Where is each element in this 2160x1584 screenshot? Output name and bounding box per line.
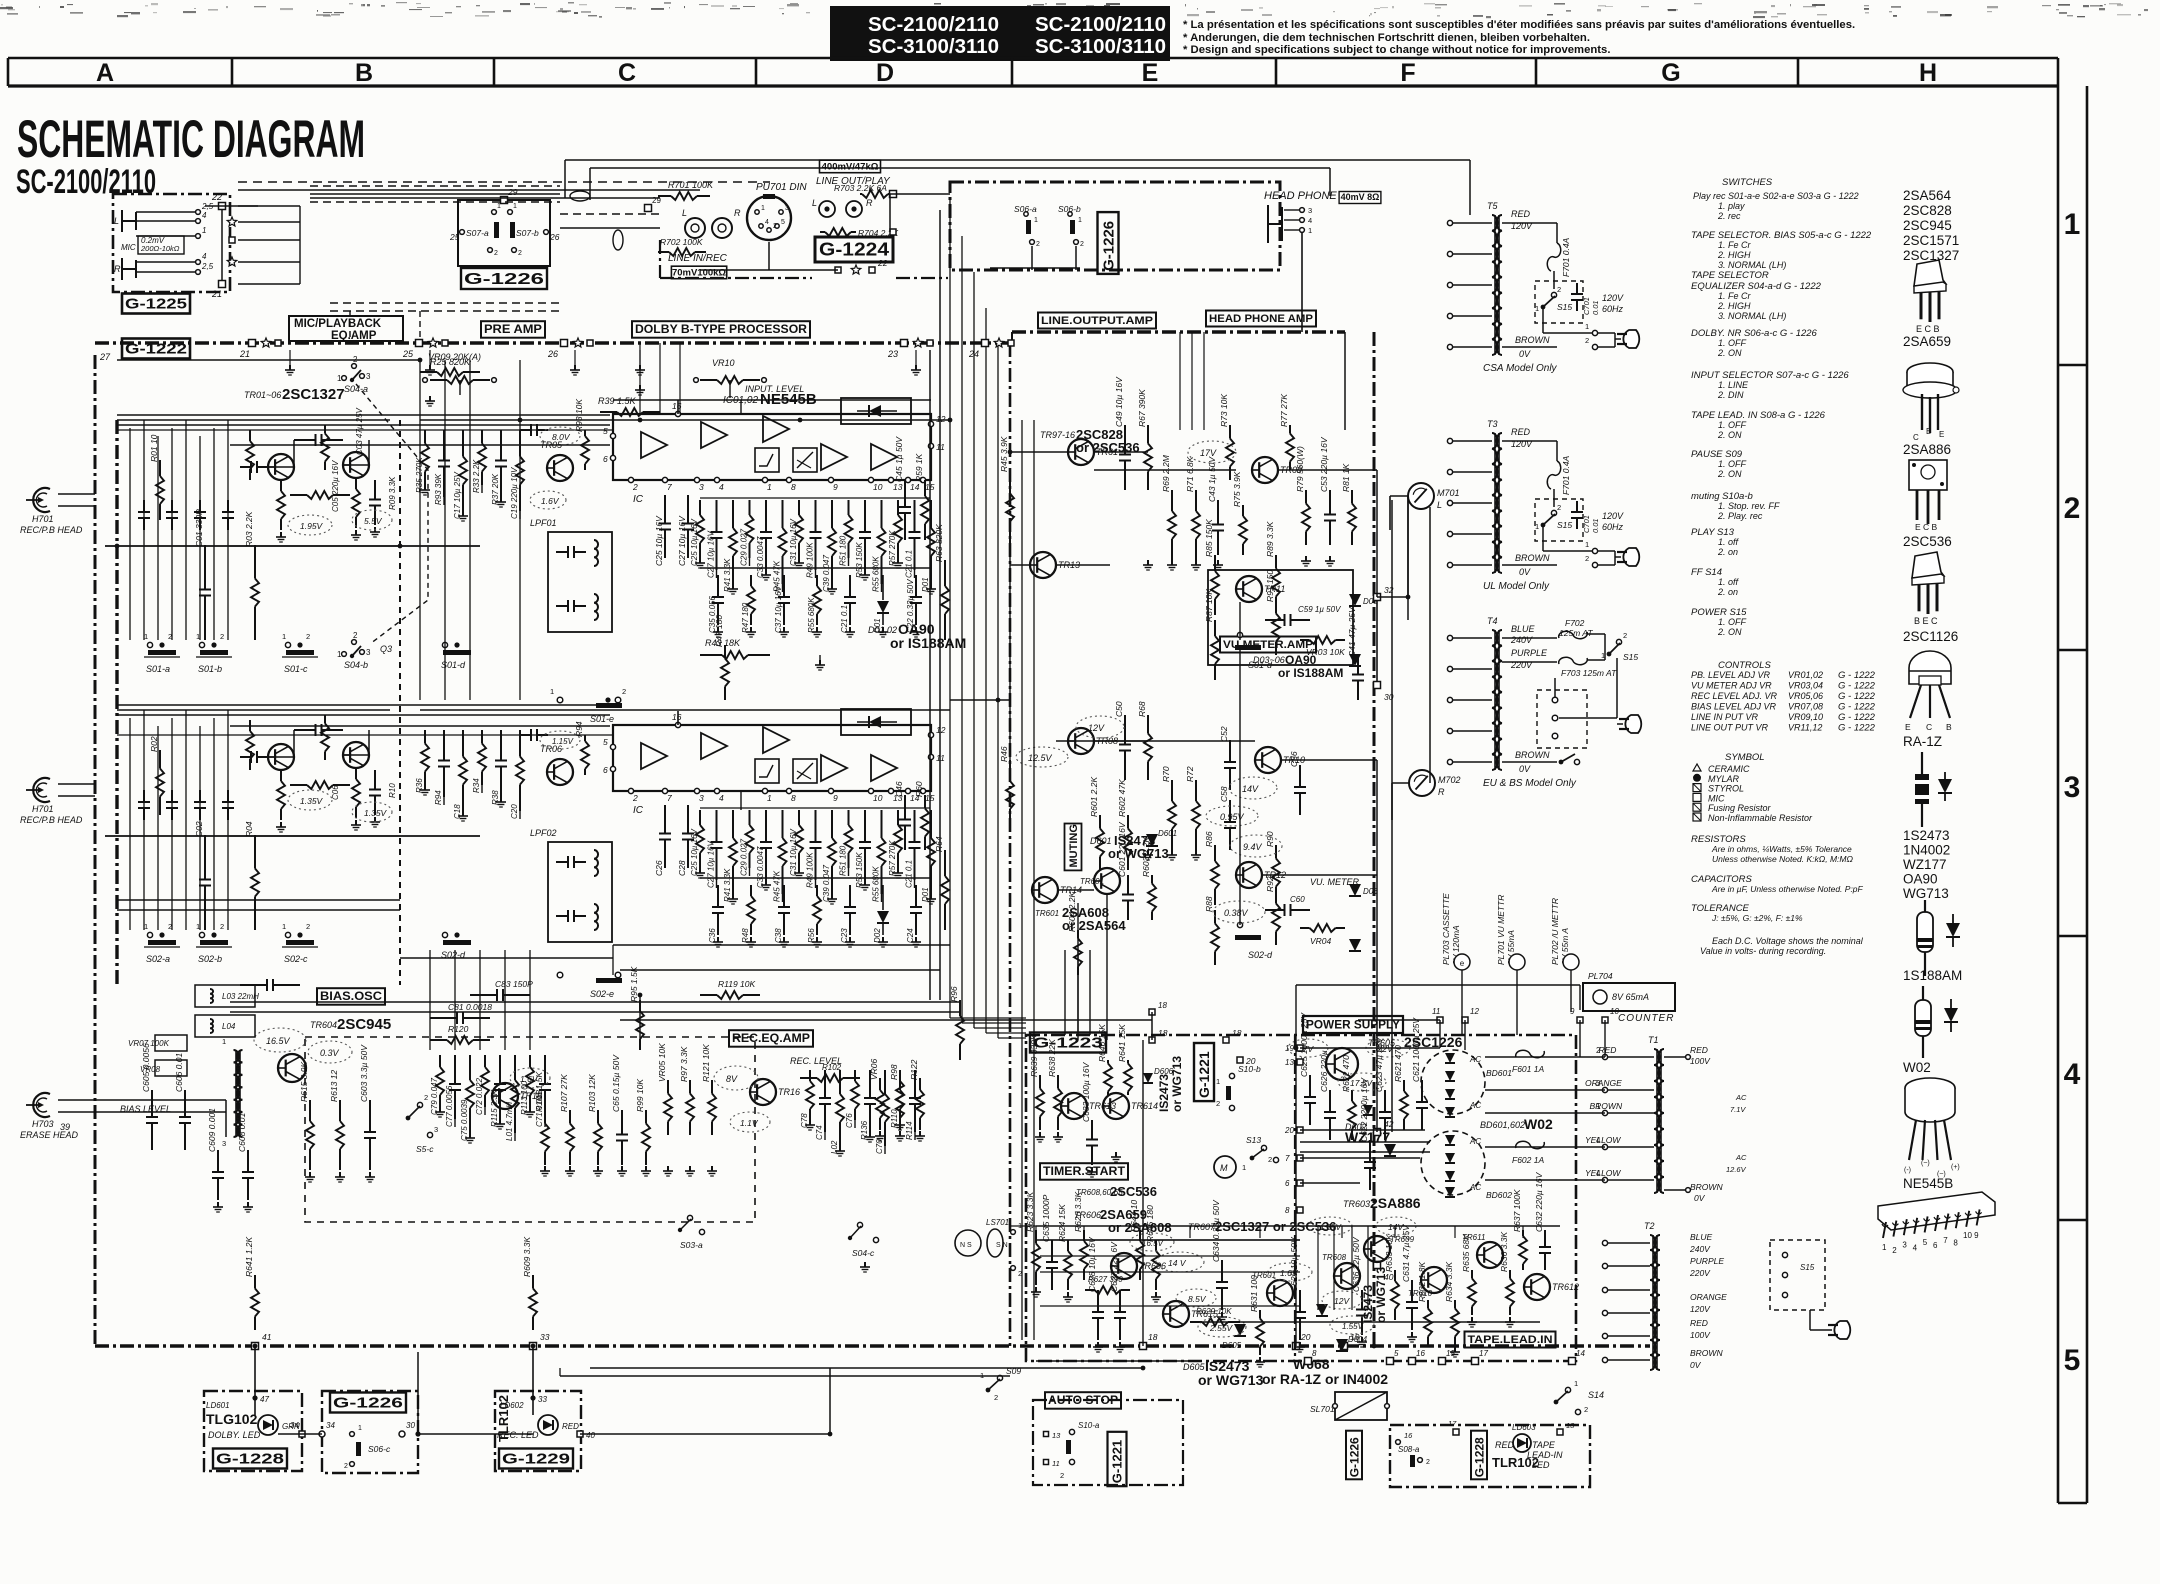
svg-text:2: 2 xyxy=(994,1393,998,1402)
svg-text:G - 1222: G - 1222 xyxy=(1838,670,1876,681)
svg-text:MUTING: MUTING xyxy=(1068,824,1080,867)
svg-text:R644 10: R644 10 xyxy=(1129,1200,1139,1232)
terminal labels on main bus xyxy=(416,340,423,347)
svg-text:R621 470: R621 470 xyxy=(1393,1045,1403,1082)
svg-text:RED: RED xyxy=(1690,1318,1708,1328)
svg-text:5: 5 xyxy=(781,219,785,226)
svg-text:B: B xyxy=(1926,427,1931,436)
resistor R45 xyxy=(782,810,784,838)
lpf coil 1 xyxy=(556,551,568,553)
cloud 17V xyxy=(1288,1039,1328,1057)
svg-text:H701: H701 xyxy=(32,514,54,524)
svg-text:4: 4 xyxy=(202,211,207,220)
right side caps IC02 xyxy=(904,795,906,820)
amp triangle IC02-1 xyxy=(641,743,667,769)
wire forest rail 2 xyxy=(700,807,930,809)
svg-text:S15: S15 xyxy=(1557,302,1572,312)
svg-text:4: 4 xyxy=(1596,1136,1601,1145)
wire forest rail 1 xyxy=(700,497,930,499)
label G-1229 xyxy=(499,1449,573,1469)
svg-text:or WG713: or WG713 xyxy=(1198,1372,1264,1388)
svg-text:C29 0.027: C29 0.027 xyxy=(740,839,749,876)
svg-text:22: 22 xyxy=(211,192,222,202)
svg-text:1.35V: 1.35V xyxy=(1320,1223,1342,1232)
svg-text:DOLBY. LED: DOLBY. LED xyxy=(208,1430,261,1440)
line out resistors xyxy=(1009,470,1011,494)
svg-text:1: 1 xyxy=(1242,1163,1246,1172)
terminal 34 pair xyxy=(299,1431,305,1437)
rec eq dashed outline xyxy=(305,1037,755,1222)
svg-text:L03 22mH: L03 22mH xyxy=(222,992,259,1001)
svg-text:LD601: LD601 xyxy=(206,1401,230,1410)
cap C81 0.0018 xyxy=(430,1017,457,1019)
svg-text:E C B: E C B xyxy=(1916,324,1940,334)
svg-text:T2: T2 xyxy=(1644,1221,1655,1231)
capacitor C33 xyxy=(765,810,767,842)
svg-text:17V: 17V xyxy=(1200,448,1217,458)
switch S01-d right xyxy=(1237,632,1242,637)
bottom bus terminals xyxy=(1140,1343,1147,1350)
svg-text:125m AT: 125m AT xyxy=(1559,628,1593,638)
vu diodes xyxy=(1349,594,1361,606)
wire horizontal preamp row2 xyxy=(105,835,480,837)
svg-text:1: 1 xyxy=(202,226,206,235)
label G-1222 xyxy=(122,339,190,359)
svg-text:1: 1 xyxy=(1535,304,1539,313)
svg-text:S02-a: S02-a xyxy=(146,954,170,964)
svg-text:R609 3.3K: R609 3.3K xyxy=(522,1237,532,1277)
T2 taps left xyxy=(1608,1242,1650,1244)
resistor C25 xyxy=(699,810,701,825)
svg-text:3: 3 xyxy=(1596,1079,1601,1088)
svg-text:2. on: 2. on xyxy=(1717,547,1738,557)
line out grounds xyxy=(1147,560,1149,565)
svg-text:(+): (+) xyxy=(1951,1164,1960,1171)
svg-text:14V: 14V xyxy=(1388,1222,1404,1232)
svg-text:100V: 100V xyxy=(1690,1056,1711,1066)
svg-text:T4: T4 xyxy=(1487,616,1498,626)
din connector PU701 xyxy=(747,196,791,240)
wire eu plug xyxy=(1616,658,1618,718)
svg-text:17: 17 xyxy=(1479,1349,1488,1358)
svg-text:LD602: LD602 xyxy=(500,1401,524,1410)
svg-text:C17 10µ 25V: C17 10µ 25V xyxy=(453,471,462,519)
wire line out amp links xyxy=(1010,451,1068,453)
svg-text:200Ω-10kΩ: 200Ω-10kΩ xyxy=(140,244,180,253)
svg-text:B: B xyxy=(355,59,373,87)
svg-text:10: 10 xyxy=(873,793,883,803)
cap C603 xyxy=(369,1100,371,1132)
svg-text:R613 12: R613 12 xyxy=(329,1070,339,1102)
svg-text:R89 3.3K: R89 3.3K xyxy=(1265,521,1275,557)
right side caps IC01 xyxy=(904,480,906,507)
transistor TR10 xyxy=(1255,747,1281,773)
svg-text:2. rec: 2. rec xyxy=(1717,211,1741,221)
wire power rows xyxy=(1300,1047,1440,1049)
svg-text:C46: C46 xyxy=(894,781,904,797)
svg-text:C605 0.0056: C605 0.0056 xyxy=(141,1043,151,1092)
svg-text:1. OFF: 1. OFF xyxy=(1718,420,1747,430)
svg-text:10: 10 xyxy=(873,482,883,492)
svg-text:2. HIGH: 2. HIGH xyxy=(1717,250,1751,260)
terminal 22 din xyxy=(869,267,875,273)
pins left IC02 xyxy=(610,744,615,749)
svg-text:3: 3 xyxy=(222,1139,226,1148)
svg-text:S02-c: S02-c xyxy=(284,954,308,964)
svg-text:R37 20K: R37 20K xyxy=(491,473,500,505)
svg-text:F702: F702 xyxy=(1565,618,1585,628)
svg-text:G-1222: G-1222 xyxy=(125,340,187,357)
svg-text:34: 34 xyxy=(290,1421,299,1430)
svg-text:R63 820K: R63 820K xyxy=(934,524,944,562)
junction terminal 18 block xyxy=(1149,1009,1155,1015)
svg-text:H: H xyxy=(1919,59,1937,87)
wire dolby ic links xyxy=(740,400,742,414)
svg-text:2SC1327: 2SC1327 xyxy=(282,386,345,403)
svg-text:G: G xyxy=(1661,59,1680,87)
svg-text:SC-2100/2110: SC-2100/2110 xyxy=(868,13,999,36)
bottom lamp G-1226 area xyxy=(1396,1440,1401,1445)
capacitor R53 xyxy=(864,810,866,842)
svg-text:R98: R98 xyxy=(889,1064,899,1080)
svg-text:R75 3.9K: R75 3.9K xyxy=(1232,471,1242,507)
transformer T3 xyxy=(1492,433,1498,573)
headphone grounds xyxy=(1217,560,1219,565)
svg-text:REC/P.B HEAD: REC/P.B HEAD xyxy=(20,525,83,535)
svg-text:0.01: 0.01 xyxy=(1591,518,1600,533)
capacitor C27 xyxy=(716,810,718,842)
pot VR09 20K xyxy=(430,379,447,381)
svg-text:S5-c: S5-c xyxy=(416,1144,434,1154)
headphone amp resistors xyxy=(1229,425,1231,439)
svg-text:2: 2 xyxy=(622,687,626,696)
capacitor R94 xyxy=(443,730,445,761)
svg-text:NE545B: NE545B xyxy=(1903,1176,1953,1191)
svg-text:29: 29 xyxy=(507,187,518,197)
svg-text:E: E xyxy=(1905,722,1911,732)
transistor TR09 xyxy=(1252,457,1278,483)
capacitor C74 xyxy=(824,1070,826,1098)
svg-text:R53 150K: R53 150K xyxy=(855,542,864,578)
svg-text:MYLAR: MYLAR xyxy=(1708,774,1740,784)
G-1224 board outline xyxy=(660,277,812,279)
wire dolby vertical stubs xyxy=(639,343,641,414)
package NE545B DIP drawing xyxy=(1878,1192,1995,1230)
op-amp IC block IC02 xyxy=(613,725,931,791)
svg-text:TR604: TR604 xyxy=(310,1020,337,1030)
vu2 resistors xyxy=(1214,845,1216,861)
svg-text:BD602: BD602 xyxy=(1486,1190,1512,1200)
svg-text:18: 18 xyxy=(1148,1332,1158,1342)
svg-text:S15: S15 xyxy=(1557,520,1572,530)
ground cluster xyxy=(280,532,282,537)
svg-text:MIC: MIC xyxy=(1708,793,1725,803)
svg-text:G-1229: G-1229 xyxy=(502,1450,570,1467)
row rail right xyxy=(2057,86,2060,1503)
svg-text:R51 180: R51 180 xyxy=(839,535,848,566)
vu meter amp resistors xyxy=(1214,555,1216,571)
amp triangle IC02-5 xyxy=(871,755,897,781)
wire meter right rail xyxy=(1407,496,1409,620)
svg-text:TR603: TR603 xyxy=(1343,1199,1370,1209)
resistor R55 xyxy=(881,810,883,838)
svg-text:2: 2 xyxy=(1585,554,1589,563)
terminal 30 xyxy=(399,1431,405,1437)
svg-text:1. OFF: 1. OFF xyxy=(1718,459,1747,469)
terminal 41 47 xyxy=(252,1395,257,1400)
svg-text:1: 1 xyxy=(2064,208,2081,241)
svg-text:STYROL: STYROL xyxy=(1708,784,1744,794)
resistor D01 xyxy=(930,810,932,838)
svg-text:6: 6 xyxy=(1285,1179,1290,1188)
svg-text:R56: R56 xyxy=(807,928,816,943)
svg-text:DOLBY B-TYPE PROCESSOR: DOLBY B-TYPE PROCESSOR xyxy=(635,324,808,336)
svg-text:MIC/PLAYBACK: MIC/PLAYBACK xyxy=(294,318,382,330)
svg-text:1. off: 1. off xyxy=(1718,537,1740,547)
pins IC01 xyxy=(628,477,633,482)
svg-text:RED: RED xyxy=(1511,209,1531,219)
svg-text:C72 0.022: C72 0.022 xyxy=(475,1078,484,1115)
svg-text:1: 1 xyxy=(1585,540,1589,549)
svg-text:8.0V: 8.0V xyxy=(552,432,571,442)
svg-text:1. Stop. rev. FF: 1. Stop. rev. FF xyxy=(1718,501,1780,511)
svg-text:C83 150P: C83 150P xyxy=(495,979,533,989)
svg-text:R04: R04 xyxy=(244,821,254,837)
wire left lower horizontals xyxy=(117,899,400,901)
transformer T2 xyxy=(1650,1235,1656,1370)
svg-text:PL701 VU METTR: PL701 VU METTR xyxy=(1496,895,1506,965)
svg-text:LINE.OUTPUT.AMP: LINE.OUTPUT.AMP xyxy=(1041,315,1153,327)
svg-text:C27 10µ 16V: C27 10µ 16V xyxy=(707,840,716,888)
label G-1226 vertical xyxy=(1098,212,1119,274)
svg-text:PL703 CASSETTE: PL703 CASSETTE xyxy=(1441,893,1451,965)
svg-text:1: 1 xyxy=(767,793,772,803)
svg-text:R51 180: R51 180 xyxy=(839,845,848,876)
wire bundles from mic to line xyxy=(310,185,560,187)
grounds under bus xyxy=(289,350,291,365)
svg-text:14: 14 xyxy=(910,482,920,492)
meter terminals 42 40 xyxy=(1374,1129,1381,1136)
svg-text:7: 7 xyxy=(667,793,672,803)
label POWER SUPPLY xyxy=(1303,1016,1403,1033)
svg-text:3. NORMAL (LH): 3. NORMAL (LH) xyxy=(1718,260,1786,270)
preamp mid res R93 xyxy=(584,430,586,436)
svg-text:1. Fe Cr: 1. Fe Cr xyxy=(1718,240,1752,250)
wire to S02-e xyxy=(612,945,614,975)
svg-text:BROWN: BROWN xyxy=(1515,750,1550,760)
svg-text:C74: C74 xyxy=(815,1125,824,1140)
switch S02-d mid xyxy=(442,932,447,937)
svg-text:39: 39 xyxy=(60,1122,70,1132)
svg-text:D02: D02 xyxy=(873,928,882,943)
wire T4 RED tap xyxy=(1502,637,1557,639)
svg-text:R73 10K: R73 10K xyxy=(1219,394,1229,427)
ground cluster xyxy=(280,822,282,827)
svg-text:4: 4 xyxy=(719,793,724,803)
svg-text:R103 12K: R103 12K xyxy=(587,1074,597,1112)
resistor C29 xyxy=(749,810,751,825)
svg-text:1. OFF: 1. OFF xyxy=(1718,617,1747,627)
rec eq pot VR05 xyxy=(667,1080,669,1094)
svg-text:R64: R64 xyxy=(934,836,944,852)
svg-text:AC: AC xyxy=(1469,1137,1481,1146)
svg-text:2,5: 2,5 xyxy=(201,262,214,271)
svg-text:ORANGE: ORANGE xyxy=(1690,1292,1727,1302)
svg-text:L: L xyxy=(114,216,119,226)
svg-text:TR601: TR601 xyxy=(1035,909,1059,918)
capacitor bypass xyxy=(374,480,376,500)
resistor R702 100K xyxy=(658,251,669,253)
switch S01-e xyxy=(557,697,563,703)
label G-1221 vertical bottom xyxy=(1108,1432,1127,1486)
svg-text:D605: D605 xyxy=(1222,1341,1242,1350)
svg-text:C621 1000µ 25V: C621 1000µ 25V xyxy=(1411,1017,1421,1082)
pot VR10 xyxy=(700,379,717,381)
svg-text:15: 15 xyxy=(1446,1349,1455,1358)
wire right bundle drop to power xyxy=(949,1000,951,1018)
svg-text:240V: 240V xyxy=(1510,635,1533,645)
pins right IC02 xyxy=(928,732,933,737)
column ruler xyxy=(8,57,2058,60)
G-1226 switch box outline xyxy=(458,200,550,266)
wire bottom long runs xyxy=(95,1367,1010,1369)
label G-1228 vertical bottom2 xyxy=(1471,1431,1487,1480)
svg-text:C606 0.01: C606 0.01 xyxy=(174,1053,184,1092)
timer resistors xyxy=(1039,1075,1041,1089)
svg-text:L: L xyxy=(682,208,687,218)
svg-text:47: 47 xyxy=(260,1395,269,1404)
svg-text:C628 10µ 16V: C628 10µ 16V xyxy=(1087,1236,1097,1292)
svg-text:120V: 120V xyxy=(1511,221,1533,231)
meter M702 xyxy=(1409,770,1435,796)
svg-text:M: M xyxy=(1220,1163,1228,1173)
capacitor bypass xyxy=(374,770,376,790)
svg-text:C701: C701 xyxy=(1582,515,1591,533)
title block black box xyxy=(830,6,1170,61)
speaker LS701 xyxy=(955,1230,981,1256)
svg-text:G - 1222: G - 1222 xyxy=(1838,712,1876,723)
svg-text:G-1221: G-1221 xyxy=(1110,1440,1125,1483)
switch S04-d xyxy=(1509,1229,1511,1231)
svg-text:VR11,12: VR11,12 xyxy=(1788,723,1822,733)
resistor R36 xyxy=(424,730,426,744)
svg-text:D: D xyxy=(876,59,894,87)
resistor emitter xyxy=(280,480,282,491)
svg-text:1: 1 xyxy=(1574,1379,1578,1388)
svg-text:R79 560(W): R79 560(W) xyxy=(1295,446,1305,492)
resistor L02 xyxy=(839,1070,841,1094)
svg-text:LINE OUT PUT VR: LINE OUT PUT VR xyxy=(1691,723,1769,733)
terminal 22 xyxy=(219,203,226,210)
svg-text:240V: 240V xyxy=(1689,1244,1711,1254)
svg-text:S13: S13 xyxy=(1246,1135,1261,1145)
svg-text:(~): (~) xyxy=(1921,1160,1930,1167)
svg-text:R645 180: R645 180 xyxy=(1145,1205,1155,1242)
svg-text:2: 2 xyxy=(1623,631,1627,640)
wire horizontals preamp top xyxy=(117,359,420,361)
svg-text:C634 0.33µ 50V: C634 0.33µ 50V xyxy=(1211,1199,1221,1262)
svg-text:OA90: OA90 xyxy=(1903,872,1938,887)
switch S04-c xyxy=(857,1222,862,1227)
svg-text:1: 1 xyxy=(1216,1077,1220,1086)
svg-text:CERAMIC: CERAMIC xyxy=(1708,764,1750,774)
svg-text:R93 39K: R93 39K xyxy=(434,473,443,505)
svg-text:0V: 0V xyxy=(1694,1193,1706,1203)
pin16 IC01 xyxy=(675,411,680,416)
svg-text:R602 47K: R602 47K xyxy=(1117,779,1127,817)
svg-text:8: 8 xyxy=(1312,1349,1317,1358)
svg-text:VR07,08: VR07,08 xyxy=(1788,702,1823,712)
svg-text:2: 2 xyxy=(1585,336,1589,345)
wire muting down xyxy=(1106,894,1108,1040)
resistor C39 xyxy=(831,500,833,528)
svg-text:S15: S15 xyxy=(1623,652,1638,662)
rca jack L xyxy=(685,218,705,238)
svg-text:9: 9 xyxy=(833,482,838,492)
capacitor C21 xyxy=(914,500,916,532)
fuse F602 1A xyxy=(1516,1141,1545,1148)
wire muting risers xyxy=(1064,950,1066,1035)
svg-text:D06: D06 xyxy=(1363,887,1378,896)
svg-text:1S188AM: 1S188AM xyxy=(1903,968,1962,983)
svg-text:12V: 12V xyxy=(1334,1296,1350,1306)
svg-text:C609 0.001: C609 0.001 xyxy=(207,1108,217,1152)
resistor R613 12 xyxy=(339,1100,341,1121)
svg-text:16: 16 xyxy=(1416,1349,1425,1358)
svg-text:0.95V: 0.95V xyxy=(1220,812,1245,822)
S10-b switch xyxy=(1229,1073,1234,1078)
svg-text:D01: D01 xyxy=(873,618,882,633)
main board top bus left xyxy=(95,341,1012,345)
amp triangle IC01-4 xyxy=(821,444,847,470)
svg-text:SCHEMATIC DIAGRAM: SCHEMATIC DIAGRAM xyxy=(17,110,365,169)
diode box IC02 xyxy=(841,709,911,735)
svg-text:R115 3.3K: R115 3.3K xyxy=(490,1089,499,1127)
svg-text:R638 22K: R638 22K xyxy=(1047,1039,1057,1077)
svg-text:10 9: 10 9 xyxy=(1963,1231,1979,1240)
svg-text:RED: RED xyxy=(1599,1045,1617,1055)
svg-text:AC: AC xyxy=(1469,1101,1481,1110)
svg-text:3: 3 xyxy=(785,205,789,212)
svg-text:W02: W02 xyxy=(1903,1060,1931,1075)
power board outline xyxy=(1026,1035,1576,1361)
svg-text:17: 17 xyxy=(1448,1419,1457,1428)
svg-text:2. ON: 2. ON xyxy=(1717,348,1742,358)
svg-text:PRE AMP: PRE AMP xyxy=(484,324,542,336)
svg-text:41: 41 xyxy=(262,1332,272,1342)
svg-text:H701: H701 xyxy=(32,804,54,814)
svg-text:8: 8 xyxy=(791,793,796,803)
svg-text:R113 100: R113 100 xyxy=(520,1080,529,1115)
wire power top links xyxy=(1142,1040,1144,1346)
svg-text:C79 0.047: C79 0.047 xyxy=(430,1078,439,1115)
transistor TR61 xyxy=(1068,439,1094,465)
clouds timer xyxy=(1156,1252,1204,1272)
svg-text:R55 680K: R55 680K xyxy=(872,866,881,902)
resistor R04 xyxy=(254,835,256,869)
svg-text:R49 100K: R49 100K xyxy=(806,542,815,578)
svg-text:S02-e: S02-e xyxy=(590,989,614,999)
transistor TR13 xyxy=(1030,552,1056,578)
svg-text:* La présentation et les spéci: * La présentation et les spécifications … xyxy=(1183,19,1855,31)
svg-text:R604 2.2K: R604 2.2K xyxy=(1067,892,1077,932)
svg-text:12: 12 xyxy=(1470,1007,1479,1016)
svg-text:4: 4 xyxy=(765,219,769,226)
svg-text:21: 21 xyxy=(211,289,222,299)
svg-text:e: e xyxy=(1460,959,1465,968)
wire erase head run xyxy=(95,1099,226,1101)
svg-text:or IS188AM: or IS188AM xyxy=(890,635,966,651)
